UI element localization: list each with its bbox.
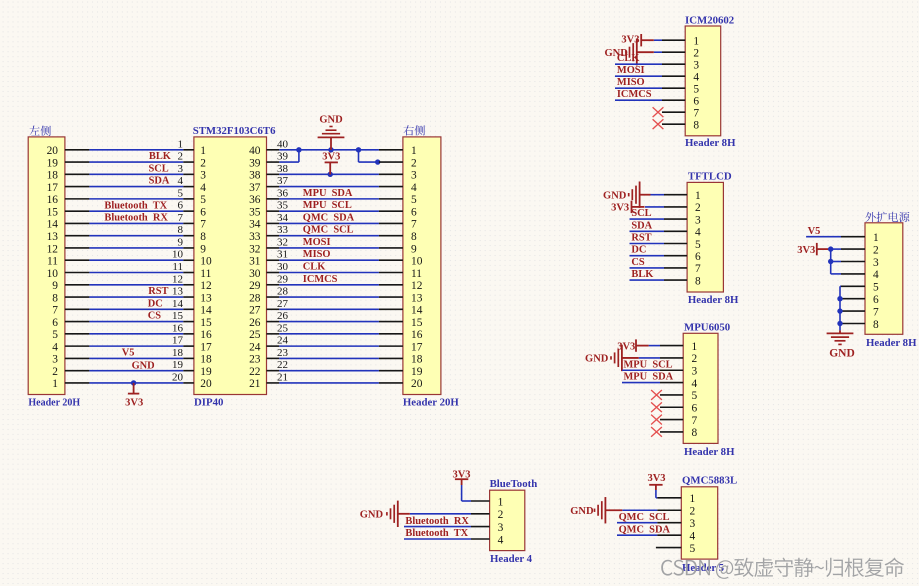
svg-text:6: 6 (695, 251, 701, 263)
junction GND net right (356, 147, 361, 152)
junction PWR.2 (828, 246, 833, 251)
junction on wire row 20 (131, 380, 136, 385)
ICM20602 pin 5 stub (662, 87, 685, 89)
power 3V3 at TFTLCD.2 (632, 201, 645, 213)
wire DIP40.33 to P2.8 (279, 235, 379, 237)
DIP40 STM32F103C6T6 (193, 125, 276, 409)
MPU6050 pin 8 stub (660, 431, 683, 433)
svg-text:1: 1 (411, 145, 417, 157)
pin stub P1.5 (65, 333, 90, 335)
svg-text:1: 1 (690, 493, 696, 505)
wire DIP40.27 to P2.14 (279, 308, 379, 310)
svg-text:31: 31 (249, 256, 261, 268)
svg-text:QMC SDA: QMC SDA (619, 524, 671, 535)
wire SDA to TFTLCD.4 (630, 230, 665, 232)
DIP40 pin 5 stub + number (178, 187, 194, 199)
svg-text:1: 1 (52, 378, 58, 390)
svg-text:9: 9 (178, 236, 184, 248)
pin stub P1.20 (65, 149, 90, 151)
svg-text:8: 8 (178, 224, 184, 236)
ICM20602 pin 4 stub (662, 75, 685, 77)
svg-text:2: 2 (873, 244, 879, 256)
DIP40 pin 4 stub + number (178, 175, 194, 187)
junction PWR.6 (837, 296, 842, 301)
svg-text:2: 2 (695, 202, 701, 214)
svg-text:11: 11 (47, 256, 58, 268)
DIP40 pin 28 stub + number (267, 286, 289, 298)
svg-text:CLK: CLK (303, 262, 326, 273)
pin stub P2.9 (379, 247, 403, 249)
svg-text:7: 7 (873, 306, 879, 318)
ground GND at MPU6050.2 (611, 345, 639, 371)
svg-text:1: 1 (693, 36, 699, 48)
svg-text:ICMCS: ICMCS (617, 89, 652, 100)
svg-text:10: 10 (411, 256, 423, 268)
svg-text:3: 3 (873, 257, 879, 269)
svg-text:18: 18 (411, 354, 423, 366)
DIP40 pin 30 stub + number (267, 261, 289, 273)
wire P1.7 to DIP40.14 (89, 308, 183, 310)
DIP40 pin 16 stub + number (172, 322, 194, 334)
svg-text:25: 25 (249, 329, 261, 341)
pin stub P2.6 (379, 210, 403, 212)
DIP40 pin 39 stub + number (267, 151, 289, 163)
svg-text:24: 24 (277, 335, 289, 347)
svg-text:27: 27 (249, 305, 261, 317)
svg-text:20: 20 (200, 378, 212, 390)
svg-text:18: 18 (172, 347, 184, 359)
svg-text:4: 4 (411, 182, 417, 194)
svg-text:3V3: 3V3 (797, 245, 815, 256)
wire 3V3 elbow to QMC5883L.1 (656, 490, 657, 498)
wire P1.2 to DIP40.19 (89, 370, 183, 372)
svg-text:V5: V5 (808, 226, 821, 237)
pin stub P2.7 (379, 222, 403, 224)
wire MISO to ICM20602.5 (615, 87, 662, 89)
svg-text:8: 8 (692, 427, 698, 439)
svg-text:24: 24 (249, 341, 261, 353)
svg-text:V5: V5 (122, 347, 135, 358)
svg-text:GND: GND (319, 115, 343, 126)
svg-text:17: 17 (200, 341, 212, 353)
wire DIP40.32 to P2.9 (279, 247, 379, 249)
pin stub P1.18 (65, 173, 90, 175)
svg-text:13: 13 (172, 286, 184, 298)
svg-text:39: 39 (249, 157, 261, 169)
svg-text:1: 1 (200, 145, 206, 157)
no-connect MPU6050.8 (651, 427, 662, 437)
wire MPU SCL to MPU6050.3 (622, 369, 660, 371)
svg-text:15: 15 (47, 206, 59, 218)
wire P1.8 to DIP40.13 (89, 296, 183, 298)
svg-text:2: 2 (693, 48, 699, 60)
junction PWR.7 (837, 308, 842, 313)
svg-text:5: 5 (200, 194, 206, 206)
svg-text:20: 20 (411, 378, 423, 390)
svg-text:8: 8 (873, 319, 879, 331)
junction 3V3 net on DIP40.38 wire (328, 172, 333, 177)
DIP40 pin 12 stub + number (172, 273, 194, 285)
svg-text:10: 10 (200, 256, 212, 268)
svg-text:MPU SCL: MPU SCL (303, 200, 352, 211)
svg-text:GND: GND (360, 510, 384, 521)
DIP40 pin 34 stub + number (267, 212, 289, 224)
wire P1.20 to DIP40.1 (89, 149, 183, 151)
junction P2.2 (375, 159, 380, 164)
svg-text:16: 16 (172, 322, 184, 334)
svg-text:32: 32 (277, 236, 288, 248)
wire P1.14 to DIP40.7 (89, 222, 183, 224)
svg-text:BLK: BLK (149, 151, 171, 162)
svg-text:10: 10 (47, 268, 59, 280)
TFTLCD pin 6 stub (664, 255, 687, 257)
svg-text:MISO: MISO (617, 77, 645, 88)
power symbol 3V3 (mid, down to DIP40.38 net) (322, 152, 340, 175)
svg-text:Header 8H: Header 8H (684, 446, 735, 458)
svg-text:14: 14 (47, 219, 59, 231)
svg-text:12: 12 (47, 243, 59, 255)
pin stub P2.14 (379, 308, 403, 310)
svg-text:2: 2 (52, 366, 58, 378)
svg-text:19: 19 (200, 366, 212, 378)
ground GND at TFTLCD.1 (629, 182, 651, 208)
no-connect MPU6050.5 (651, 390, 662, 400)
svg-text:19: 19 (172, 359, 184, 371)
svg-text:6: 6 (693, 96, 699, 108)
wire 3V3 to MPU6050.1 (649, 345, 660, 347)
junction PWR.3 (828, 259, 833, 264)
svg-text:36: 36 (249, 194, 261, 206)
svg-text:7: 7 (178, 212, 184, 224)
junction PWR.8 (837, 321, 842, 326)
svg-text:8: 8 (411, 231, 417, 243)
svg-text:11: 11 (411, 268, 422, 280)
wire GND to BlueTooth.2 (410, 513, 471, 515)
ICM20602 pin 8 stub (662, 123, 685, 125)
wire DC to TFTLCD.6 (630, 255, 665, 257)
svg-text:31: 31 (277, 249, 288, 261)
no-connect MPU6050.7 (651, 415, 662, 425)
wire GND to MPU6050.2 (639, 357, 660, 359)
svg-text:3: 3 (52, 354, 58, 366)
svg-text:4: 4 (873, 269, 879, 281)
wire P1.1 to DIP40.20 (89, 382, 183, 384)
svg-text:5: 5 (690, 543, 696, 555)
svg-text:29: 29 (277, 273, 289, 285)
svg-text:14: 14 (411, 305, 423, 317)
pin stub P2.5 (379, 198, 403, 200)
pin stub P1.14 (65, 222, 90, 224)
DIP40 pin 2 stub + number (178, 151, 194, 163)
svg-text:GND: GND (132, 360, 155, 371)
svg-text:19: 19 (47, 157, 59, 169)
svg-text:7: 7 (52, 305, 58, 317)
svg-text:30: 30 (277, 261, 289, 273)
ICM20602 pin 2 stub (662, 51, 685, 53)
wire P2.2 branch up to GND net (359, 150, 378, 162)
svg-text:37: 37 (277, 175, 289, 187)
svg-text:18: 18 (200, 354, 212, 366)
svg-text:6: 6 (178, 200, 184, 212)
DIP40 pin 15 stub + number (172, 310, 194, 322)
wire DIP40.26 to P2.15 (279, 321, 379, 323)
wire P1.6 to DIP40.15 (89, 321, 183, 323)
DIP40 pin 8 stub + number (178, 224, 194, 236)
svg-text:28: 28 (249, 292, 261, 304)
svg-text:16: 16 (200, 329, 212, 341)
svg-text:35: 35 (249, 206, 261, 218)
pin stub P2.19 (379, 370, 403, 372)
wire DIP40.23 to P2.18 (279, 357, 379, 359)
svg-text:25: 25 (277, 322, 289, 334)
DIP40 pin 17 stub + number (172, 335, 194, 347)
svg-text:MISO: MISO (303, 249, 331, 260)
svg-text:3V3: 3V3 (125, 398, 143, 409)
wire Bluetooth RX to BlueTooth.3 (404, 526, 471, 528)
svg-text:ICMCS: ICMCS (303, 274, 338, 285)
no-connect MPU6050.6 (651, 402, 662, 412)
QMC5883L pin 2 stub (657, 509, 681, 511)
svg-text:MOSI: MOSI (303, 237, 331, 248)
DIP40 pin 6 stub + number (178, 200, 194, 212)
svg-text:8: 8 (693, 120, 699, 132)
svg-text:SDA: SDA (149, 176, 170, 187)
svg-text:DIP40: DIP40 (194, 397, 223, 409)
PWR pin 2 stub (841, 248, 865, 250)
svg-text:26: 26 (277, 310, 289, 322)
svg-text:5: 5 (693, 84, 699, 96)
svg-text:38: 38 (249, 170, 261, 182)
pin stub P1.15 (65, 210, 90, 212)
svg-text:MPU6050: MPU6050 (684, 321, 730, 333)
svg-text:5: 5 (695, 239, 701, 251)
DIP40 pin 9 stub + number (178, 236, 194, 248)
svg-text:1: 1 (178, 138, 184, 150)
DIP40 pin 14 stub + number (172, 298, 194, 310)
svg-text:Bluetooth RX: Bluetooth RX (405, 516, 469, 527)
header BlueTooth (Header 4) (490, 478, 538, 565)
svg-text:GND: GND (570, 506, 594, 517)
svg-text:21: 21 (277, 371, 288, 383)
svg-text:QMC SDA: QMC SDA (303, 212, 355, 223)
svg-text:3: 3 (178, 163, 184, 175)
svg-text:GND: GND (829, 348, 855, 360)
DIP40 pin 10 stub + number (172, 249, 194, 261)
svg-text:3V3: 3V3 (647, 473, 665, 484)
svg-text:3V3: 3V3 (322, 152, 340, 163)
svg-text:MOSI: MOSI (617, 65, 645, 76)
svg-text:29: 29 (249, 280, 261, 292)
svg-text:RST: RST (631, 233, 651, 244)
svg-text:18: 18 (47, 170, 59, 182)
DIP40 pin 11 stub + number (172, 261, 193, 273)
svg-text:Header 20H: Header 20H (403, 397, 459, 409)
svg-text:40: 40 (277, 138, 289, 150)
MPU6050 pin 4 stub (660, 382, 683, 384)
svg-text:MPU SCL: MPU SCL (624, 359, 673, 370)
svg-text:BlueTooth: BlueTooth (490, 478, 538, 490)
svg-text:12: 12 (172, 273, 183, 285)
svg-text:6: 6 (873, 294, 879, 306)
svg-text:7: 7 (692, 415, 698, 427)
pin stub P1.4 (65, 345, 90, 347)
svg-text:3: 3 (690, 518, 696, 530)
svg-text:15: 15 (200, 317, 212, 329)
svg-text:BLK: BLK (631, 269, 653, 280)
junction GND net stem (328, 147, 333, 152)
svg-text:33: 33 (277, 224, 289, 236)
DIP40 pin 19 stub + number (172, 359, 194, 371)
svg-text:35: 35 (277, 200, 289, 212)
svg-text:2: 2 (411, 157, 417, 169)
header QMC5883L (Header 5) (681, 475, 737, 574)
header MPU6050 (Header 8H) (683, 321, 735, 458)
svg-text:20: 20 (172, 371, 184, 383)
svg-text:QMC SCL: QMC SCL (303, 225, 354, 236)
svg-text:38: 38 (277, 163, 289, 175)
pin stub P1.13 (65, 235, 90, 237)
power 3V3 at ICM20602.1 (641, 34, 654, 46)
header ICM20602 (Header 8H) (685, 14, 736, 149)
svg-text:32: 32 (249, 243, 261, 255)
svg-text:2: 2 (498, 509, 504, 521)
svg-text:23: 23 (277, 347, 289, 359)
TFTLCD pin 7 stub (664, 267, 687, 269)
no-connect ICM20602.8 (653, 119, 664, 129)
svg-text:22: 22 (249, 366, 261, 378)
QMC5883L pin 4 stub (657, 534, 681, 536)
no-connect ICM20602.7 (653, 107, 664, 117)
wire DIP40.24 to P2.17 (279, 345, 379, 347)
svg-text:36: 36 (277, 187, 289, 199)
MPU6050 pin 3 stub (660, 369, 683, 371)
wire BLK to TFTLCD.8 (630, 279, 665, 281)
wire P1.11 to DIP40.10 (89, 259, 183, 261)
header P2 (Header 20H) 右侧 (403, 125, 459, 408)
wire SCL to TFTLCD.3 (630, 218, 665, 220)
pin stub P2.11 (379, 272, 403, 274)
svg-text:37: 37 (249, 182, 261, 194)
pin stub P1.11 (65, 259, 90, 261)
DIP40 pin 26 stub + number (267, 310, 289, 322)
QMC5883L pin 3 stub (657, 522, 681, 524)
MPU6050 pin 2 stub (660, 357, 683, 359)
svg-text:4: 4 (178, 175, 184, 187)
svg-text:22: 22 (277, 359, 288, 371)
wire DIP40.30 to P2.11 (279, 272, 379, 274)
wire DIP40.35 to P2.6 (279, 210, 379, 212)
svg-text:1: 1 (873, 232, 879, 244)
svg-text:16: 16 (47, 194, 59, 206)
wire GND bus to PWR.5-8 (840, 286, 841, 330)
TFTLCD pin 2 stub (664, 206, 687, 208)
DIP40 pin 23 stub + number (267, 347, 289, 359)
wire P1.12 to DIP40.9 (89, 247, 183, 249)
svg-text:CS: CS (631, 257, 645, 268)
svg-text:23: 23 (249, 354, 261, 366)
DIP40 pin 33 stub + number (267, 224, 289, 236)
svg-text:8: 8 (695, 275, 701, 287)
svg-text:5: 5 (873, 282, 879, 294)
svg-text:QMC5883L: QMC5883L (682, 475, 737, 487)
svg-text:19: 19 (411, 366, 423, 378)
DIP40 pin 3 stub + number (178, 163, 194, 175)
svg-text:3V3: 3V3 (611, 203, 629, 214)
svg-text:20: 20 (47, 145, 59, 157)
svg-text:17: 17 (411, 341, 423, 353)
svg-text:Bluetooth TX: Bluetooth TX (104, 200, 167, 211)
svg-text:MPU SDA: MPU SDA (303, 188, 353, 199)
PWR pin 3 stub (841, 261, 865, 263)
svg-text:34: 34 (277, 212, 289, 224)
svg-text:MPU SDA: MPU SDA (624, 372, 674, 383)
wire DIP40.36 to P2.5 (279, 198, 379, 200)
pin stub P2.20 (379, 382, 403, 384)
svg-text:1: 1 (692, 341, 698, 353)
svg-text:Header 8H: Header 8H (866, 337, 917, 349)
svg-text:GND: GND (585, 354, 609, 365)
svg-text:39: 39 (277, 151, 289, 163)
svg-text:7: 7 (411, 219, 417, 231)
DIP40 pin 27 stub + number (267, 298, 289, 310)
wire P1.19 to DIP40.2 (89, 161, 183, 163)
TFTLCD pin 4 stub (664, 230, 687, 232)
svg-text:2: 2 (692, 353, 698, 365)
pin stub P1.8 (65, 296, 90, 298)
wire P1.17 to DIP40.4 (89, 186, 183, 188)
svg-text:4: 4 (690, 530, 696, 542)
DIP40 pin 13 stub + number (172, 286, 194, 298)
pin stub P2.17 (379, 345, 403, 347)
watermark CSDN @致虚守静~归根复命 (661, 558, 904, 579)
svg-text:SCL: SCL (149, 163, 169, 174)
wire MOSI to ICM20602.4 (615, 75, 662, 77)
ICM20602 pin 7 stub (662, 111, 685, 113)
wire MPU SDA to MPU6050.4 (622, 382, 660, 384)
svg-text:12: 12 (411, 280, 423, 292)
power 3V3 at MPU6050.1 (636, 339, 649, 351)
svg-text:13: 13 (47, 231, 59, 243)
svg-text:28: 28 (277, 286, 289, 298)
QMC5883L pin 1 stub (657, 497, 681, 499)
pin stub P1.6 (65, 321, 90, 323)
DIP40 pin 32 stub + number (267, 236, 289, 248)
svg-text:4: 4 (692, 378, 698, 390)
svg-text:3: 3 (695, 214, 701, 226)
svg-text:Header 8H: Header 8H (688, 294, 739, 306)
DIP40 pin 38 stub + number (267, 163, 289, 175)
svg-text:17: 17 (172, 335, 184, 347)
pin stub P1.7 (65, 308, 90, 310)
pin stub P1.12 (65, 247, 90, 249)
wire DIP40.21 to P2.20 (279, 382, 379, 384)
svg-text:2: 2 (200, 157, 206, 169)
wire P1.18 to DIP40.3 (89, 173, 183, 175)
svg-text:13: 13 (200, 292, 212, 304)
ground GND (earth, above bus) (318, 115, 345, 150)
svg-text:4: 4 (693, 72, 699, 84)
junction GND net left (296, 147, 301, 152)
svg-text:CS: CS (148, 311, 162, 322)
MPU6050 pin 1 stub (660, 345, 683, 347)
ground GND at ICM20602.2 (626, 39, 654, 65)
svg-text:3: 3 (693, 60, 699, 72)
pin stub P1.2 (65, 370, 90, 372)
header 外扩电源 (Header 8H) (865, 212, 917, 349)
svg-text:4: 4 (695, 227, 701, 239)
wire DIP40.29 to P2.12 (279, 284, 379, 286)
ICM20602 pin 3 stub (662, 63, 685, 65)
